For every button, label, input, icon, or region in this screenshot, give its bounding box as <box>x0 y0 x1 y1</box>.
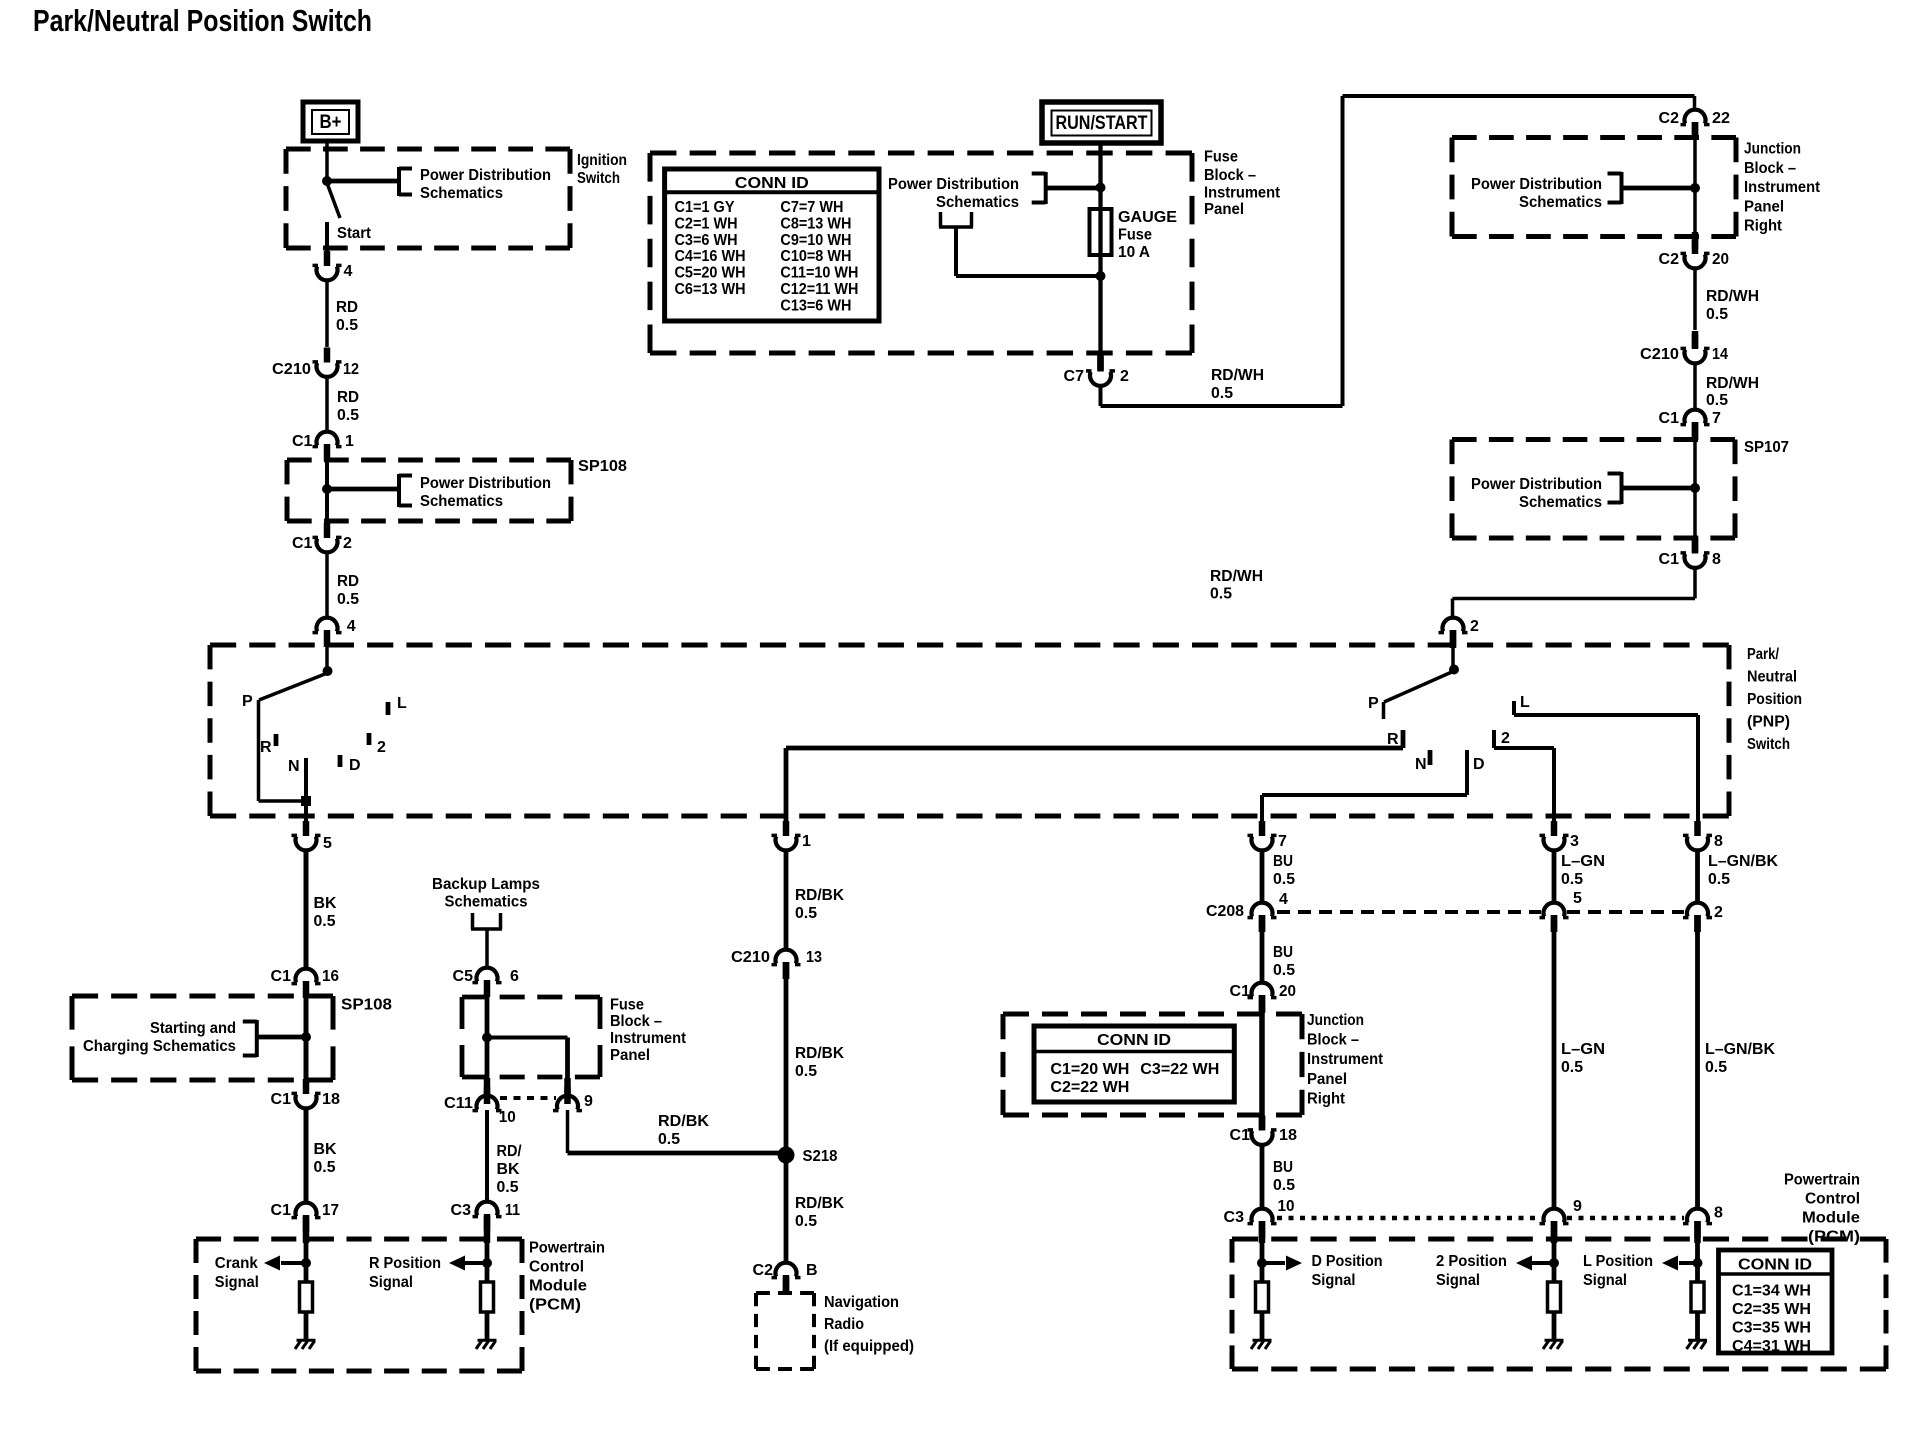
svg-text:Panel: Panel <box>1204 201 1244 218</box>
svg-text:2: 2 <box>1714 904 1723 921</box>
svg-text:C210: C210 <box>272 361 311 378</box>
svg-text:D Position: D Position <box>1312 1253 1383 1270</box>
svg-text:C11: C11 <box>444 1095 473 1112</box>
svg-text:RD: RD <box>337 573 359 590</box>
svg-text:10 A: 10 A <box>1118 244 1150 261</box>
svg-text:17: 17 <box>322 1202 339 1219</box>
svg-text:RD/WH: RD/WH <box>1706 288 1759 305</box>
svg-text:8: 8 <box>1714 833 1723 850</box>
svg-text:Junction: Junction <box>1744 141 1801 158</box>
svg-text:20: 20 <box>1279 983 1296 1000</box>
svg-text:Instrument: Instrument <box>1204 185 1281 202</box>
svg-text:Schematics: Schematics <box>1519 494 1602 511</box>
svg-text:Signal: Signal <box>1436 1272 1480 1289</box>
svg-text:RD: RD <box>336 299 358 316</box>
svg-text:Instrument: Instrument <box>1307 1051 1384 1068</box>
svg-text:16: 16 <box>322 968 339 985</box>
svg-text:GAUGE: GAUGE <box>1118 209 1177 226</box>
svg-text:Start: Start <box>337 225 372 242</box>
svg-text:1: 1 <box>345 433 354 450</box>
svg-text:BK: BK <box>497 1161 520 1178</box>
svg-text:8: 8 <box>1712 551 1721 568</box>
svg-text:Junction: Junction <box>1307 1012 1364 1029</box>
svg-text:22: 22 <box>1712 110 1730 127</box>
svg-text:D: D <box>1473 756 1485 773</box>
svg-text:0.5: 0.5 <box>497 1179 519 1196</box>
svg-text:C12=11 WH: C12=11 WH <box>780 281 858 298</box>
svg-text:Signal: Signal <box>215 1274 259 1291</box>
svg-text:C3: C3 <box>451 1202 472 1219</box>
svg-text:C1: C1 <box>1230 1127 1251 1144</box>
svg-text:0.5: 0.5 <box>337 591 359 608</box>
svg-text:RD/BK: RD/BK <box>795 887 844 904</box>
svg-text:2 Position: 2 Position <box>1436 1253 1507 1270</box>
svg-text:C1=1 GY: C1=1 GY <box>675 199 735 216</box>
svg-text:C10=8 WH: C10=8 WH <box>780 248 851 265</box>
svg-text:4: 4 <box>1279 891 1288 908</box>
svg-text:Ignition: Ignition <box>577 152 627 169</box>
svg-text:14: 14 <box>1712 346 1728 363</box>
svg-text:S218: S218 <box>803 1148 838 1165</box>
svg-text:Block –: Block – <box>1744 160 1796 177</box>
svg-text:Panel: Panel <box>1744 198 1784 215</box>
svg-text:Schematics: Schematics <box>936 194 1019 211</box>
svg-text:RD/BK: RD/BK <box>795 1195 844 1212</box>
svg-text:2: 2 <box>1501 730 1510 747</box>
svg-text:C5: C5 <box>453 968 474 985</box>
svg-text:0.5: 0.5 <box>1211 385 1233 402</box>
svg-text:2: 2 <box>1470 618 1479 635</box>
svg-text:0.5: 0.5 <box>1273 871 1295 888</box>
svg-text:5: 5 <box>323 835 332 852</box>
svg-text:B: B <box>806 1262 818 1279</box>
svg-text:C7: C7 <box>1064 368 1085 385</box>
svg-text:CONN ID: CONN ID <box>1738 1257 1812 1274</box>
svg-text:2: 2 <box>377 739 386 756</box>
svg-text:Crank: Crank <box>215 1255 258 1272</box>
svg-text:(If equipped): (If equipped) <box>824 1338 914 1355</box>
svg-text:C13=6 WH: C13=6 WH <box>780 297 851 314</box>
svg-text:Charging Schematics: Charging Schematics <box>83 1038 236 1055</box>
svg-text:0.5: 0.5 <box>1273 1177 1295 1194</box>
svg-text:SP108: SP108 <box>341 997 392 1014</box>
svg-text:(PNP): (PNP) <box>1747 714 1790 731</box>
svg-text:C3: C3 <box>1224 1209 1245 1226</box>
svg-text:0.5: 0.5 <box>1708 871 1730 888</box>
svg-text:Schematics: Schematics <box>445 894 528 911</box>
svg-text:C9=10 WH: C9=10 WH <box>780 232 851 249</box>
svg-text:Powertrain: Powertrain <box>1784 1171 1860 1188</box>
svg-text:L–GN/BK: L–GN/BK <box>1708 853 1778 870</box>
svg-text:RD/BK: RD/BK <box>658 1113 709 1130</box>
svg-text:3: 3 <box>1570 833 1579 850</box>
svg-text:Signal: Signal <box>1312 1272 1356 1289</box>
svg-text:C1: C1 <box>1230 983 1251 1000</box>
svg-text:Signal: Signal <box>1583 1272 1627 1289</box>
svg-text:C3=35 WH: C3=35 WH <box>1732 1320 1811 1337</box>
svg-text:C3=22 WH: C3=22 WH <box>1140 1061 1219 1078</box>
svg-text:C5=20 WH: C5=20 WH <box>675 265 746 282</box>
svg-text:7: 7 <box>1278 833 1287 850</box>
svg-text:C210: C210 <box>731 949 770 966</box>
svg-text:BK: BK <box>314 895 337 912</box>
svg-text:Fuse: Fuse <box>1204 149 1238 166</box>
svg-text:BK: BK <box>314 1141 337 1158</box>
svg-text:Radio: Radio <box>824 1316 864 1333</box>
svg-text:Park/: Park/ <box>1747 646 1779 663</box>
svg-text:0.5: 0.5 <box>1273 962 1295 979</box>
svg-text:C8=13 WH: C8=13 WH <box>780 215 851 232</box>
svg-text:8: 8 <box>1714 1205 1723 1222</box>
svg-text:L–GN: L–GN <box>1561 1041 1605 1058</box>
svg-text:7: 7 <box>1712 410 1721 427</box>
svg-text:(PCM): (PCM) <box>529 1297 581 1314</box>
svg-text:5: 5 <box>1573 890 1582 907</box>
svg-text:Fuse: Fuse <box>1118 227 1152 244</box>
svg-text:L: L <box>397 695 407 712</box>
svg-text:C3=6 WH: C3=6 WH <box>675 232 738 249</box>
svg-text:BU: BU <box>1273 853 1293 870</box>
svg-text:Right: Right <box>1744 218 1783 235</box>
svg-text:Power Distribution: Power Distribution <box>1471 176 1602 193</box>
svg-text:Starting and: Starting and <box>150 1020 236 1037</box>
svg-text:Module: Module <box>1802 1209 1860 1226</box>
svg-text:BU: BU <box>1273 1159 1293 1176</box>
svg-text:Switch: Switch <box>577 170 620 187</box>
svg-text:Schematics: Schematics <box>420 185 503 202</box>
svg-text:C2: C2 <box>1659 251 1680 268</box>
svg-text:0.5: 0.5 <box>1210 586 1232 603</box>
svg-text:C1: C1 <box>1659 551 1680 568</box>
svg-text:(PCM): (PCM) <box>1808 1228 1860 1245</box>
svg-text:D: D <box>349 757 361 774</box>
svg-text:C1: C1 <box>271 1091 292 1108</box>
svg-text:2: 2 <box>343 535 352 552</box>
svg-text:C2: C2 <box>1659 110 1680 127</box>
svg-text:C2=35 WH: C2=35 WH <box>1732 1301 1811 1318</box>
svg-text:Block –: Block – <box>1204 167 1256 184</box>
svg-text:C1=34 WH: C1=34 WH <box>1732 1283 1811 1300</box>
svg-text:Block –: Block – <box>1307 1032 1359 1049</box>
svg-text:B+: B+ <box>320 112 342 133</box>
svg-text:0.5: 0.5 <box>795 1063 817 1080</box>
svg-text:0.5: 0.5 <box>1561 871 1583 888</box>
svg-text:Control: Control <box>529 1259 584 1276</box>
svg-text:C4=16 WH: C4=16 WH <box>675 248 746 265</box>
svg-text:Power Distribution: Power Distribution <box>888 176 1019 193</box>
svg-text:0.5: 0.5 <box>1706 306 1728 323</box>
svg-text:0.5: 0.5 <box>337 407 359 424</box>
svg-text:L Position: L Position <box>1583 1253 1653 1270</box>
svg-text:Right: Right <box>1307 1090 1346 1107</box>
svg-text:SP107: SP107 <box>1744 439 1789 456</box>
svg-text:18: 18 <box>322 1091 340 1108</box>
svg-text:SP108: SP108 <box>578 458 627 475</box>
svg-text:C208: C208 <box>1206 903 1244 920</box>
svg-text:Schematics: Schematics <box>420 493 503 510</box>
svg-text:RD/WH: RD/WH <box>1211 367 1264 384</box>
svg-text:L: L <box>1520 694 1530 711</box>
svg-text:12: 12 <box>343 361 359 378</box>
svg-text:BU: BU <box>1273 944 1293 961</box>
svg-text:0.5: 0.5 <box>1706 392 1728 409</box>
svg-text:R: R <box>1387 731 1399 748</box>
svg-text:0.5: 0.5 <box>795 905 817 922</box>
svg-text:Power Distribution: Power Distribution <box>420 475 551 492</box>
svg-text:Switch: Switch <box>1747 736 1790 753</box>
svg-text:Backup Lamps: Backup Lamps <box>432 876 540 893</box>
svg-text:Instrument: Instrument <box>1744 179 1821 196</box>
svg-text:Panel: Panel <box>1307 1071 1347 1088</box>
svg-text:P: P <box>242 693 253 710</box>
svg-text:P: P <box>1368 695 1379 712</box>
svg-text:Powertrain: Powertrain <box>529 1240 605 1257</box>
svg-text:C1: C1 <box>292 535 313 552</box>
svg-text:0.5: 0.5 <box>1561 1059 1583 1076</box>
svg-text:C1: C1 <box>1659 410 1680 427</box>
svg-text:Instrument: Instrument <box>610 1030 687 1047</box>
svg-text:CONN ID: CONN ID <box>1097 1032 1171 1049</box>
svg-text:0.5: 0.5 <box>658 1131 680 1148</box>
svg-text:L–GN: L–GN <box>1561 853 1605 870</box>
svg-text:RUN/START: RUN/START <box>1056 113 1148 134</box>
svg-text:1: 1 <box>802 833 811 850</box>
svg-text:10: 10 <box>1278 1198 1295 1215</box>
svg-text:13: 13 <box>806 949 822 966</box>
svg-text:10: 10 <box>499 1109 516 1126</box>
svg-text:0.5: 0.5 <box>795 1213 817 1230</box>
svg-text:C11=10 WH: C11=10 WH <box>780 265 858 282</box>
svg-text:Panel: Panel <box>610 1047 650 1064</box>
svg-text:RD/BK: RD/BK <box>795 1045 844 1062</box>
svg-text:Power Distribution: Power Distribution <box>420 167 551 184</box>
svg-text:Signal: Signal <box>369 1274 413 1291</box>
svg-text:C1=20 WH: C1=20 WH <box>1050 1061 1129 1078</box>
svg-text:0.5: 0.5 <box>336 317 358 334</box>
svg-text:C1: C1 <box>271 968 292 985</box>
svg-text:Neutral: Neutral <box>1747 669 1797 686</box>
svg-text:Schematics: Schematics <box>1519 194 1602 211</box>
svg-text:Power Distribution: Power Distribution <box>1471 476 1602 493</box>
svg-text:11: 11 <box>505 1202 520 1219</box>
svg-text:9: 9 <box>584 1093 593 1110</box>
svg-text:18: 18 <box>1279 1127 1297 1144</box>
svg-text:RD/WH: RD/WH <box>1706 375 1759 392</box>
svg-text:RD/: RD/ <box>497 1143 522 1160</box>
svg-text:N: N <box>288 758 300 775</box>
svg-text:20: 20 <box>1712 251 1729 268</box>
svg-text:Block –: Block – <box>610 1013 662 1030</box>
svg-text:C2=22 WH: C2=22 WH <box>1050 1079 1129 1096</box>
svg-text:L–GN/BK: L–GN/BK <box>1705 1041 1775 1058</box>
svg-text:4: 4 <box>347 618 356 635</box>
svg-text:0.5: 0.5 <box>314 1159 336 1176</box>
svg-text:4: 4 <box>344 263 353 280</box>
svg-text:R: R <box>260 739 272 756</box>
svg-text:C1: C1 <box>271 1202 292 1219</box>
svg-text:C210: C210 <box>1640 346 1679 363</box>
svg-text:Position: Position <box>1747 691 1802 708</box>
svg-text:Park/Neutral Position Switch: Park/Neutral Position Switch <box>33 3 372 38</box>
svg-text:Fuse: Fuse <box>610 997 644 1014</box>
svg-text:C1: C1 <box>292 433 313 450</box>
svg-text:CONN ID: CONN ID <box>735 175 809 192</box>
svg-text:9: 9 <box>1573 1198 1582 1215</box>
svg-text:RD/WH: RD/WH <box>1210 568 1263 585</box>
svg-text:C7=7 WH: C7=7 WH <box>780 199 843 216</box>
svg-text:Navigation: Navigation <box>824 1294 899 1311</box>
svg-text:N: N <box>1415 756 1427 773</box>
svg-text:6: 6 <box>510 968 519 985</box>
svg-text:R Position: R Position <box>369 1255 441 1272</box>
svg-text:C2=1 WH: C2=1 WH <box>675 215 738 232</box>
svg-text:0.5: 0.5 <box>314 913 336 930</box>
svg-text:C2: C2 <box>753 1262 774 1279</box>
svg-text:C4=31 WH: C4=31 WH <box>1732 1338 1811 1355</box>
svg-text:0.5: 0.5 <box>1705 1059 1727 1076</box>
svg-text:Module: Module <box>529 1278 587 1295</box>
svg-text:Control: Control <box>1805 1190 1860 1207</box>
svg-text:2: 2 <box>1120 368 1129 385</box>
svg-text:C6=13 WH: C6=13 WH <box>675 281 746 298</box>
svg-text:RD: RD <box>337 389 359 406</box>
